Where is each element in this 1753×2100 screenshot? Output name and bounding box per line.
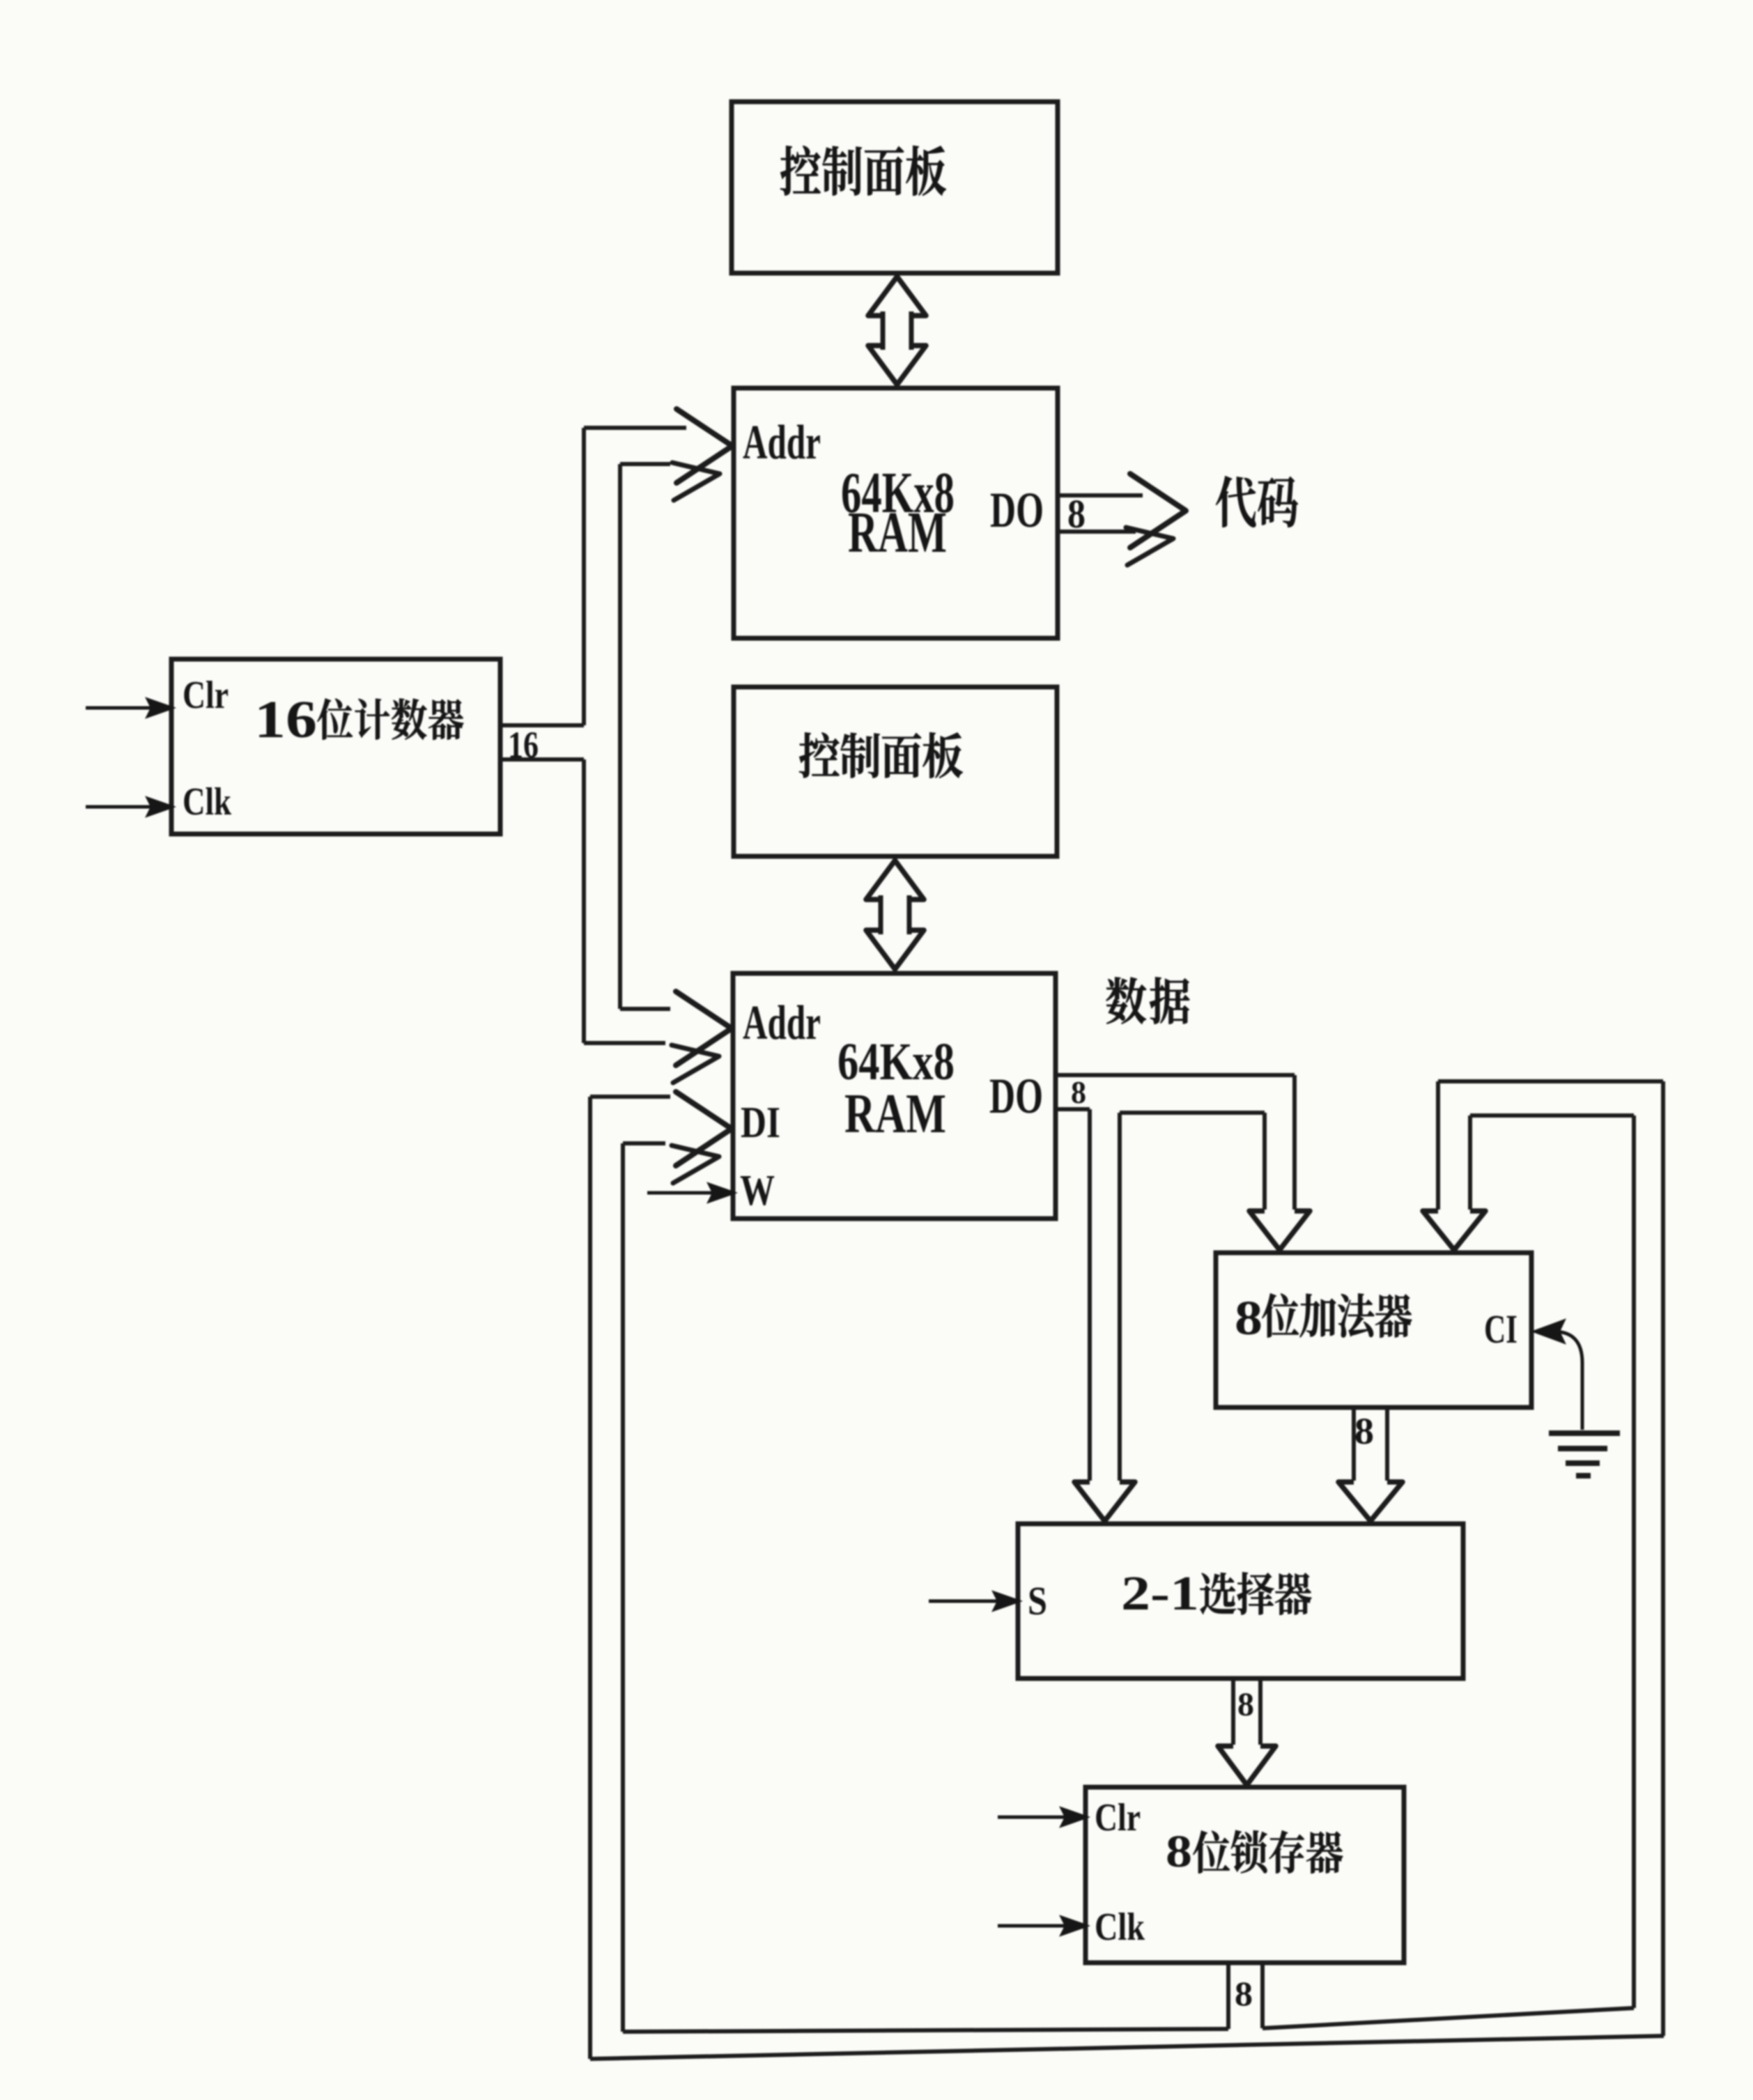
bus arrow head into RAM2 DI [676,1092,732,1166]
block CNT: 16-bit counter 16位计数器 [171,659,500,834]
bus wire: address bus left outer rail (down segment) [582,759,586,1043]
label output 代码 [1216,476,1298,527]
bus arrow head into RAM2 Addr [676,991,732,1065]
bus wire: RAM2 DO top wall [1056,1073,1295,1077]
bus wire: top wall into RAM1 Addr [584,426,686,430]
bus wire: RAM2 DO bottom wall segment 2 [1120,1111,1265,1115]
bus arrow head into adder right input [1423,1211,1485,1250]
block LATCH: 8-bit latch 8位锁存器 [1086,1787,1404,1963]
label B1 text 控制面板 [780,146,945,195]
wire: CI from ground (curved) [1554,1331,1582,1430]
bus arrow head into selector (from adder) [1338,1482,1403,1521]
bus wire: selector output walls [1231,1678,1235,1745]
bus wire: bottom wall into RAM1 Addr [620,462,670,466]
bus wire: feedback top wall outer [1438,1079,1663,1083]
bus wire: bottom wall into RAM2 Addr [584,1041,665,1045]
bottom feedback bus upper wall (left of latch tap) [623,2029,1228,2032]
stub arrow into RAM2 W [647,1191,716,1195]
label B2 text 控制面板 [799,732,962,778]
bus wire: down walls to adder right input [1436,1081,1440,1210]
svg-text:S: S [1028,1578,1047,1623]
svg-text:Clr: Clr [183,674,229,717]
svg-text:64Kx8: 64Kx8 [837,1033,955,1091]
svg-text:2-1: 2-1 [1121,1567,1199,1621]
svg-text:Addr: Addr [743,996,821,1050]
svg-text:8: 8 [1237,1686,1254,1723]
block B2: control panel (middle) 控制面板 [734,687,1057,856]
svg-text:16: 16 [508,724,539,766]
bus wire: branch down to selector left wall [1088,1109,1092,1481]
stub arrow into SEL S [929,1600,1001,1603]
bus arrow head into adder left input [1249,1211,1310,1250]
svg-text:DO: DO [990,482,1044,538]
block B1: control panel (top) 控制面板 [732,102,1058,273]
svg-text:Addr: Addr [743,416,821,470]
bus wire: RAM1 DO output walls [1058,493,1143,497]
svg-text:8: 8 [1166,1826,1192,1877]
bus wire: feedback right inner rail [1632,1115,1636,2008]
bus wire: address bus left outer rail (up segment) [582,428,586,725]
block RAM2: 64Kx8 RAM (data memory) [733,973,1056,1219]
bus wire: feedback right outer rail [1661,1081,1665,2036]
svg-text:Clr: Clr [1095,1796,1141,1839]
svg-text:Clk: Clk [183,780,232,824]
block SEL: 2-1 selector 2-1选择器 [1018,1524,1463,1678]
svg-text:RAM: RAM [844,1083,946,1145]
bidirectional bus arrow between B1 and RAM1 [868,277,926,385]
bus wire: top wall into RAM2 Addr [620,1007,670,1011]
bus wire: branch down to adder left input walls [1262,1113,1267,1210]
svg-text:Clk: Clk [1095,1906,1145,1949]
svg-text:16: 16 [254,690,317,749]
stub arrow into LATCH Clk [998,1924,1069,1928]
svg-text:8: 8 [1235,1974,1253,2013]
bidirectional bus arrow between B2 and RAM2 [866,860,924,969]
svg-text:CI: CI [1484,1306,1518,1352]
bus arrow head into RAM1 Addr [677,409,732,483]
svg-text:8: 8 [1354,1410,1374,1452]
stub arrow into LATCH Clr [998,1816,1069,1819]
svg-text:8: 8 [1067,491,1086,536]
svg-text:DO: DO [989,1068,1043,1124]
svg-text:RAM: RAM [848,500,947,565]
bus wire: adder output walls [1352,1407,1356,1481]
bottom feedback bus lower wall [590,2036,1664,2059]
stub arrow into CNT Clr [86,707,155,710]
svg-text:DI: DI [741,1097,780,1147]
block ADD: 8-bit adder 8位加法器 [1216,1253,1531,1407]
label net 数据 [1106,978,1190,1024]
bus wire: latch output walls [1226,1963,1230,2029]
bus wire: top wall into RAM2 DI [590,1095,670,1099]
bottom feedback bus upper wall (right of latch tap) [1262,2008,1634,2028]
block RAM1: 64Kx8 RAM (code memory) [734,388,1058,638]
bus wire: RAM2 DO bottom wall segment 1 [1056,1107,1090,1111]
svg-text:8: 8 [1235,1292,1262,1345]
bus wire: DI feedback left outer rail [588,1097,592,2059]
bus wire: feedback top wall inner [1470,1113,1634,1118]
bus wire: DI feedback inner rail [621,1143,625,2032]
stub arrow into CNT Clk [86,805,155,809]
bus wire: counter 16-bit output horizontal walls [500,723,584,727]
solid arrow head into CI [1533,1320,1565,1343]
bus arrow head into latch [1218,1746,1276,1785]
svg-text:W: W [740,1167,775,1214]
svg-text:8: 8 [1071,1074,1086,1110]
bus arrow head into selector (from RAM2 DO) [1074,1482,1135,1521]
bus arrow head: code output 代码 [1130,474,1186,548]
bus wire: branch down to selector right wall [1118,1113,1122,1481]
bus wire: address bus inner rail [618,464,622,1009]
ground symbol [1549,1430,1620,1436]
bus wire: bottom wall into RAM2 DI [623,1141,665,1145]
